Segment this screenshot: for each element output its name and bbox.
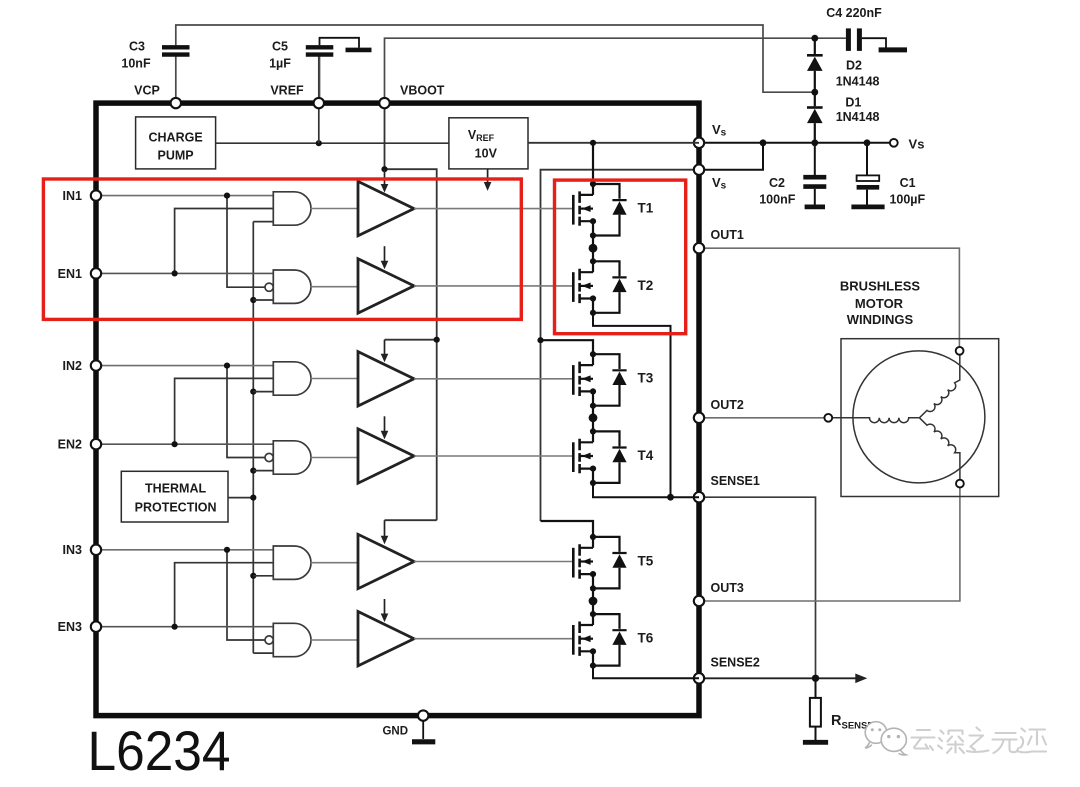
driver buffer 5 — [358, 534, 414, 588]
wire: thermal rail stubs into gates — [253, 222, 273, 653]
nand-gate D (EN2, inverted IN2) — [273, 441, 311, 474]
junction dots on Vs line — [760, 139, 871, 146]
wire: IN2 to gate C — [96, 365, 273, 367]
pin GND — [382, 710, 435, 741]
diode D1 1N4148 — [807, 92, 880, 143]
svg-text:PUMP: PUMP — [158, 149, 194, 163]
svg-text:D2: D2 — [846, 59, 862, 73]
wire: OUT1 node to T2 drain — [592, 248, 594, 261]
svg-text:10V: 10V — [475, 147, 498, 161]
svg-text:C3: C3 — [129, 40, 145, 54]
op-amp U1 L6234 IC boundary box — [96, 103, 699, 716]
wire: T2 source to SENSE1 rail — [593, 313, 671, 497]
resistor R SENSE — [803, 678, 874, 742]
wire: VREF pin vertical into IC — [318, 57, 320, 144]
svg-text:C4 220nF: C4 220nF — [826, 6, 882, 20]
wire: Vs pin2 link — [699, 143, 763, 170]
svg-text:OUT3: OUT3 — [711, 581, 744, 595]
svg-text:C2: C2 — [769, 176, 785, 190]
svg-text:WINDINGS: WINDINGS — [847, 312, 914, 327]
watermark text (stylized) — [912, 728, 1047, 754]
wire: VCP pin to C3 — [175, 57, 177, 104]
svg-text:OUT1: OUT1 — [711, 228, 744, 242]
nand-gate F (EN3, inverted IN3) — [273, 623, 311, 656]
junction: VBOOT rail top — [381, 166, 387, 172]
capacitor C3 — [121, 40, 189, 71]
label BRUSHLESS MOTOR WINDINGS — [840, 279, 921, 328]
arrow: supply into driver 6 — [381, 599, 389, 622]
driver buffer 3 — [358, 352, 414, 406]
wire: Vs to T1 drain — [592, 143, 594, 184]
wire: EN2 to gate D — [96, 443, 273, 445]
svg-text:OUT2: OUT2 — [711, 398, 744, 412]
junction: T2/T4 sources at SENSE1 — [667, 494, 674, 501]
wire: IN1 to gate A — [96, 195, 273, 197]
arrow: supply into driver 2 — [381, 246, 389, 269]
driver buffer 6 — [358, 612, 414, 666]
arrow: bootstrap into driver 5 — [381, 520, 389, 544]
wire: Vs rail to T3 drain — [541, 340, 594, 354]
svg-text:Vs: Vs — [909, 137, 925, 152]
wire: OUT1 to motor winding 1 — [699, 248, 959, 347]
transistor T4 — [573, 428, 626, 486]
winding phase 1 (left, horizontal coil) — [832, 418, 919, 423]
svg-text:SENSE1: SENSE1 — [711, 474, 760, 488]
junction: EN2 node — [172, 441, 178, 447]
wire: gate B output — [311, 286, 358, 288]
svg-text:D1: D1 — [845, 96, 861, 110]
svg-text:T1: T1 — [638, 201, 654, 216]
transistor T5 — [573, 534, 626, 592]
wire: VCP via C3 to charge pump diodes junction — [176, 25, 815, 92]
wire: EN1 to gate B — [96, 272, 273, 274]
arrow: supply into driver 4 — [381, 416, 389, 439]
and-gate E (IN3) — [273, 546, 311, 579]
node OUT1 — [589, 244, 598, 253]
wire: VREF block to Vs pin 1 — [528, 142, 699, 144]
junction: VBOOT node — [811, 35, 818, 42]
svg-text:GND: GND — [382, 726, 408, 738]
svg-text:C1: C1 — [900, 176, 916, 190]
junction: Vs rail to T3 drain — [537, 337, 543, 343]
wire: Vs rail to T5 drain — [541, 521, 594, 537]
junction: T1 drain on Vs line — [590, 140, 596, 146]
node OUT3 — [589, 597, 598, 606]
watermark logo (chat bubbles) — [865, 722, 906, 755]
svg-text:PROTECTION: PROTECTION — [135, 500, 217, 514]
svg-text:VBOOT: VBOOT — [400, 84, 445, 98]
svg-text:CHARGE: CHARGE — [149, 131, 203, 145]
junction: VBOOT rail at driver 3 tap — [434, 337, 440, 343]
wire: VREF pin to C5 — [319, 57, 321, 104]
arrow: VREF block output downward — [484, 169, 492, 191]
block THERMAL PROTECTION — [121, 471, 228, 522]
wire: C5 to ground plate — [320, 38, 360, 48]
winding phase 3 (lower right diagonal coil) — [919, 418, 960, 480]
wire: T5 source to OUT3 node — [592, 588, 594, 601]
svg-text:SENSE2: SENSE2 — [711, 656, 760, 670]
driver buffer 4 — [358, 429, 414, 483]
arrow: bootstrap into driver 1 — [381, 169, 389, 192]
transistor T2 — [573, 258, 626, 316]
svg-text:T2: T2 — [638, 278, 654, 293]
ground plate near C5 — [346, 48, 372, 53]
capacitor C4 — [826, 6, 882, 51]
terminal motor phase 3 (bottom) — [956, 480, 964, 488]
wire: driver 5 output to T5 gate — [414, 561, 573, 563]
svg-text:THERMAL: THERMAL — [145, 481, 206, 495]
capacitor C2 100nF — [759, 143, 826, 207]
wire: driver 6 output to T6 gate — [414, 638, 573, 640]
arrow: bootstrap into driver 3 — [381, 340, 389, 363]
driver buffer 1 — [358, 181, 414, 235]
motor box — [841, 339, 999, 497]
svg-text:EN1: EN1 — [58, 267, 82, 281]
wire: gate F output — [311, 639, 358, 641]
wire: thermal protection rail vertical — [252, 222, 254, 653]
wire: OUT2 to motor winding 2 — [699, 417, 824, 419]
junction: D1-D2 node — [811, 89, 818, 96]
svg-text:VREF: VREF — [270, 84, 304, 98]
svg-text:BRUSHLESS: BRUSHLESS — [840, 279, 921, 294]
wire: thermal protection output to gate rail — [228, 497, 253, 499]
terminal motor phase 1 (top) — [956, 347, 964, 355]
wire: C4 to ground plate — [862, 38, 886, 47]
wire: EN1 branch up to gate A — [175, 209, 274, 274]
junction: EN1 node — [172, 270, 178, 276]
diode D2 1N4148 — [807, 38, 880, 92]
wire: EN3 branch up to gate E — [175, 563, 274, 627]
junction: IN2 node — [224, 363, 230, 369]
wire: T3 source to OUT2 node — [592, 406, 594, 418]
junction: IN3 node — [224, 547, 230, 553]
wire: driver 4 output to T4 gate — [414, 455, 573, 457]
capacitor C5 — [269, 40, 333, 71]
svg-text:100nF: 100nF — [759, 193, 795, 207]
svg-text:T4: T4 — [638, 448, 654, 463]
svg-text:EN3: EN3 — [58, 620, 82, 634]
wire: T6 source to SENSE2 pin — [593, 666, 699, 679]
svg-text:C5: C5 — [272, 40, 288, 54]
capacitor C1 100uF electrolytic — [851, 143, 925, 207]
block CHARGE PUMP — [136, 117, 216, 169]
and-gate C (IN2) — [273, 362, 311, 395]
wire: OUT3 node to T6 drain — [592, 601, 594, 614]
transistor T1 — [573, 181, 626, 239]
wire: VBOOT to C4 / D2 junction — [385, 38, 846, 103]
wire: gate A output — [311, 208, 358, 210]
wire: EN3 to gate F — [96, 626, 273, 628]
wire: IN1 inverted branch to gate B bubble — [227, 196, 265, 288]
wire: driver 3 output to T3 gate — [414, 378, 573, 380]
wire: SENSE2 line with arrow — [699, 677, 857, 679]
wire: IN2 inverted branch to gate D bubble — [227, 366, 265, 458]
highlight red box 2 (half bridge T1/T2) — [555, 180, 686, 334]
highlight red box 1 (input logic channel 1) — [43, 179, 521, 319]
svg-text:MOTOR: MOTOR — [855, 296, 904, 311]
svg-text:EN2: EN2 — [58, 438, 82, 452]
wire: OUT2 node to T4 drain — [592, 418, 594, 432]
wire: Vs supply line — [699, 142, 894, 144]
and-gate A (IN1) — [273, 192, 311, 225]
svg-text:1N4148: 1N4148 — [836, 75, 880, 89]
nand-gate B (EN1, inverted IN1) — [273, 270, 311, 303]
winding phase 2 (upper right diagonal coil) — [919, 355, 959, 418]
motor circle — [853, 351, 985, 483]
wire: driver 1 output to T1 gate — [414, 208, 573, 210]
wire: OUT3 to motor winding 3 — [699, 488, 960, 601]
wire: gate E output — [311, 562, 358, 564]
svg-text:T3: T3 — [638, 371, 654, 386]
terminal Vs — [890, 139, 898, 147]
svg-text:L6234: L6234 — [88, 719, 231, 782]
driver buffer 2 — [358, 259, 414, 313]
wire: charge pump output to VREF block — [216, 142, 449, 144]
wire: IN3 inverted branch to gate F bubble — [227, 550, 265, 640]
wire: EN2 branch up to gate C — [175, 378, 274, 444]
junction: IN1 node — [224, 193, 230, 199]
junction: sense node — [812, 675, 819, 682]
junction: EN3 node — [172, 624, 178, 630]
svg-text:100µF: 100µF — [889, 193, 925, 207]
svg-text:1N4148: 1N4148 — [836, 110, 880, 124]
wire: gate D output — [311, 457, 358, 459]
wire: gate C output — [311, 378, 358, 380]
wire: SENSE1 to sense resistor rail — [699, 497, 816, 678]
svg-text:IN3: IN3 — [63, 543, 83, 557]
transistor T3 — [573, 351, 626, 409]
wire: internal Vs rail from Vs pin2 — [541, 170, 700, 521]
svg-text:VCP: VCP — [134, 84, 160, 98]
svg-text:10nF: 10nF — [121, 57, 151, 71]
svg-text:1µF: 1µF — [269, 57, 291, 71]
terminal motor phase 2 (left) — [824, 414, 832, 422]
wire: T1 source to OUT1 node — [592, 236, 594, 249]
transistor T6 — [573, 611, 626, 669]
junction dots on thermal rail — [250, 297, 256, 579]
wire: T4 source to SENSE1 pin — [593, 483, 699, 497]
block VREF 10V regulator — [449, 118, 528, 169]
ground plate near C4 — [879, 47, 907, 52]
svg-text:T6: T6 — [638, 631, 654, 646]
junction: VREF pin to internal rail — [316, 140, 322, 146]
svg-text:IN1: IN1 — [63, 189, 83, 203]
node OUT2 — [589, 413, 598, 422]
wire: IN3 to gate E — [96, 549, 273, 551]
wire: driver 2 output to T2 gate — [414, 285, 573, 287]
svg-text:IN2: IN2 — [63, 359, 83, 373]
wire: VBOOT internal rail — [385, 103, 437, 520]
svg-text:T5: T5 — [638, 553, 654, 568]
